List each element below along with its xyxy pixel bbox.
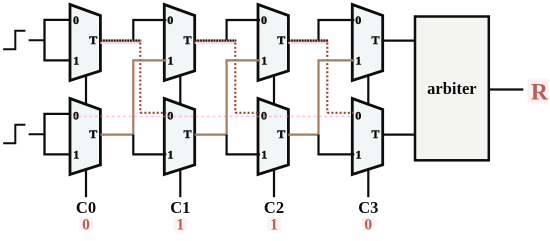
- svg-text:T: T: [277, 127, 285, 141]
- wire black: U1 T to U2 input 0: [133, 20, 166, 41]
- select wire C2 between muxes: [273, 74, 275, 105]
- svg-text:0: 0: [261, 13, 267, 27]
- input fanout bracket top mux U1: [45, 20, 71, 61]
- svg-text:T: T: [183, 127, 191, 141]
- svg-text:0: 0: [364, 216, 372, 233]
- svg-text:1: 1: [73, 147, 79, 161]
- select wire C1 between muxes: [179, 74, 181, 105]
- wire red dotted halo: [288, 42, 328, 44]
- wire black: U2 T to U3 input 0: [227, 20, 260, 41]
- svg-text:0: 0: [82, 216, 90, 233]
- arbiter block A1: [415, 17, 489, 161]
- svg-text:1: 1: [261, 53, 267, 67]
- wire red dotted halo: [195, 42, 237, 44]
- svg-text:C1: C1: [170, 198, 190, 217]
- svg-text:T: T: [89, 127, 97, 141]
- wire black: U7 T to U8 input 1: [319, 135, 355, 155]
- svg-text:0: 0: [167, 13, 173, 27]
- wire red dotted halo: [100, 42, 141, 44]
- highlighted path (magenta dash-dot) bottom lane input-0 level: [73, 115, 353, 117]
- wire red dotted: U1 T toward U6 input 0: [100, 39, 141, 41]
- mux U4 (top lane stage 4): [352, 5, 382, 81]
- wire arbiter output to R: [489, 88, 524, 90]
- challenge value 1 for C1: [173, 217, 187, 231]
- select wire C0 stub: [85, 168, 87, 197]
- svg-text:C3: C3: [358, 198, 378, 217]
- mux U5 (bottom lane stage 1): [70, 99, 100, 175]
- select wire C3 between muxes: [367, 74, 369, 105]
- wire U4 T to arbiter: [383, 39, 416, 41]
- wire red dotted: U2 T toward U7 input 0: [195, 39, 237, 41]
- svg-text:0: 0: [261, 109, 267, 123]
- svg-text:1: 1: [270, 216, 278, 233]
- svg-text:0: 0: [73, 13, 79, 27]
- wire U8 T to arbiter: [383, 134, 416, 136]
- svg-text:1: 1: [168, 53, 174, 67]
- wire tan solid: U5 T to U2 input 1: [100, 60, 166, 134]
- wire black: U3 T to U4 input 0: [319, 20, 355, 41]
- svg-text:arbiter: arbiter: [427, 79, 476, 98]
- wire red dotted underlay: [100, 40, 141, 42]
- select wire C0 between muxes: [85, 74, 87, 105]
- input step source top lane: [3, 31, 25, 50]
- input fanout bracket bottom mux U5: [45, 114, 71, 154]
- wire black: U5 T to U6 input 1: [133, 135, 166, 155]
- select wire C2 stub: [273, 168, 275, 197]
- select wire C3 stub: [367, 168, 369, 197]
- challenge value 1 for C2: [267, 217, 281, 231]
- svg-text:1: 1: [168, 147, 174, 161]
- svg-text:0: 0: [167, 109, 173, 123]
- svg-text:T: T: [371, 127, 379, 141]
- challenge value 0 for C0: [79, 217, 93, 231]
- svg-text:1: 1: [261, 147, 267, 161]
- mux U7 (bottom lane stage 3): [258, 99, 288, 175]
- svg-text:T: T: [371, 33, 379, 47]
- mux U2 (top lane stage 2): [164, 5, 194, 81]
- svg-text:1: 1: [176, 216, 184, 233]
- svg-text:0: 0: [73, 109, 79, 123]
- response node R: [528, 79, 549, 104]
- svg-text:1: 1: [356, 53, 362, 67]
- wire tan solid: U7 T to U4 input 1: [288, 60, 354, 134]
- svg-text:T: T: [89, 33, 97, 47]
- mux U3 (top lane stage 3): [258, 5, 288, 81]
- svg-text:T: T: [277, 33, 285, 47]
- wire top input to bracket: [29, 39, 45, 41]
- mux U6 (bottom lane stage 2): [164, 99, 194, 175]
- select wire C1 stub: [179, 168, 181, 197]
- wire bottom input to bracket: [29, 133, 45, 135]
- svg-text:R: R: [531, 79, 549, 105]
- svg-text:C2: C2: [264, 198, 284, 217]
- wire red dotted underlay: [288, 40, 328, 42]
- svg-text:1: 1: [73, 53, 79, 67]
- wire tan solid: U6 T to U3 input 1: [195, 60, 260, 134]
- svg-text:0: 0: [355, 13, 361, 27]
- input step source bottom lane: [3, 125, 25, 144]
- wire red dotted underlay: [195, 40, 237, 42]
- wire red dotted: U3 T toward U8 input 0: [288, 39, 328, 41]
- mux U8 (bottom lane stage 4): [352, 99, 382, 175]
- svg-text:0: 0: [355, 109, 361, 123]
- svg-text:1: 1: [356, 147, 362, 161]
- svg-text:T: T: [183, 33, 191, 47]
- wire black: U6 T to U7 input 1: [227, 135, 260, 155]
- svg-text:C0: C0: [76, 198, 96, 217]
- mux U1 (top lane stage 1): [70, 5, 100, 81]
- challenge value 0 for C3: [361, 217, 375, 231]
